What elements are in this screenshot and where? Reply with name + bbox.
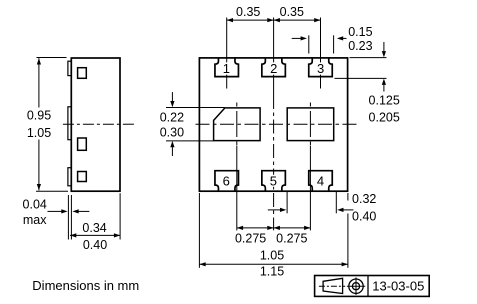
side view lead strip middle bbox=[68, 107, 71, 140]
svg-text:max: max bbox=[23, 213, 47, 227]
dimension 0.95/1.05 line upper segment with up arrow bbox=[38, 58, 40, 107]
package vertical centerline solid upper part bbox=[273, 18, 275, 96]
projection symbol outer circle bbox=[349, 279, 363, 293]
dimension 0.125/0.205 extension line top bbox=[350, 57, 387, 59]
side view terminal square 1 bbox=[78, 68, 87, 79]
left die pad with pin-1 chamfer bbox=[214, 108, 261, 141]
dimension 0.32/0.40 extension line right (pin 4 right edge) bbox=[335, 192, 337, 213]
projection symbol cone (trapezoid) bbox=[323, 278, 343, 293]
dimension 0.95/1.05 extension line top bbox=[37, 57, 67, 59]
svg-text:0.35: 0.35 bbox=[280, 5, 304, 19]
pin number 1 bbox=[222, 62, 232, 74]
bottom view body outline bbox=[199, 58, 347, 191]
dimension 0.22/0.30 extension line top bbox=[166, 107, 225, 109]
pin 6 bbox=[215, 171, 239, 192]
projection symbol crosshair horizontal bbox=[347, 285, 365, 287]
svg-text:0.40: 0.40 bbox=[83, 238, 107, 252]
pin number 2 bbox=[269, 62, 279, 74]
pin 5 bbox=[262, 171, 286, 192]
dimension 0.22/0.30 up arrow bbox=[171, 147, 173, 156]
svg-text:4: 4 bbox=[317, 174, 324, 189]
dimension 0.35 pitch line with arrows bbox=[227, 19, 321, 21]
dimension 0.125/0.205 up arrow bbox=[383, 85, 385, 92]
svg-text:0.275: 0.275 bbox=[235, 231, 266, 245]
dimension 0.04 max extension line (strip edge) bbox=[67, 195, 69, 240]
title block divider bbox=[367, 276, 369, 297]
title block outer box bbox=[315, 276, 430, 297]
svg-text:1.15: 1.15 bbox=[260, 265, 284, 279]
dimension 0.95/1.05 extension line bottom bbox=[36, 190, 68, 192]
dimension 1.05/1.15 extension line right lower bbox=[347, 214, 349, 268]
svg-text:0.95: 0.95 bbox=[27, 108, 51, 122]
dimension 0.95/1.05 line lower segment with down arrow bbox=[38, 140, 40, 191]
projection symbol centerline bbox=[319, 285, 345, 287]
projection symbol crosshair vertical bbox=[355, 278, 357, 296]
pin 1 centerline bbox=[226, 18, 228, 89]
pin number 3 bbox=[316, 62, 326, 74]
dimension 0.125/0.205 extension line bottom bbox=[335, 77, 387, 79]
svg-text:1: 1 bbox=[223, 61, 230, 76]
right pad centerline solid extension bbox=[309, 146, 311, 230]
dimension 0.04 max extension line (body edge) bbox=[70, 195, 72, 240]
svg-text:3: 3 bbox=[317, 61, 324, 76]
svg-text:2: 2 bbox=[270, 61, 277, 76]
dimension 0.15/0.23 right arrow bbox=[343, 37, 347, 39]
dimension 0.15/0.23 extension line right bbox=[333, 35, 335, 53]
svg-text:0.275: 0.275 bbox=[276, 231, 307, 245]
dimension 0.275 line with outward arrows bbox=[237, 227, 311, 229]
dimension 1.05/1.15 line with outward arrows bbox=[199, 263, 348, 265]
pin 1 bbox=[215, 58, 239, 77]
package vertical centerline dash-dot bbox=[273, 95, 275, 230]
dimension 0.34/0.40 extension line right (body right edge) bbox=[119, 193, 121, 239]
projection symbol inner circle bbox=[352, 283, 359, 290]
pin number 6 bbox=[221, 175, 231, 187]
side view lead strip bottom bbox=[68, 168, 71, 186]
svg-text:0.23: 0.23 bbox=[348, 39, 372, 53]
svg-text:0.34: 0.34 bbox=[82, 221, 106, 235]
dimension 0.04 max left-pointing arrow bbox=[79, 210, 90, 212]
dimension 0.32/0.40 extension line left (pin 5 right edge) bbox=[286, 192, 288, 213]
dimension 1.05/1.15 extension line right upper bbox=[347, 193, 349, 201]
dimension 0.22/0.30 extension line bottom bbox=[166, 140, 213, 142]
side view terminal square 2 bbox=[78, 138, 87, 150]
pin 3 bbox=[309, 58, 333, 77]
dimension 0.125/0.205 down arrow bbox=[383, 42, 385, 51]
side view body outline bbox=[71, 58, 120, 191]
svg-text:0.40: 0.40 bbox=[352, 210, 376, 224]
svg-text:6: 6 bbox=[223, 174, 230, 189]
svg-text:1.05: 1.05 bbox=[27, 126, 51, 140]
svg-text:0.30: 0.30 bbox=[160, 125, 184, 139]
svg-text:13-03-05: 13-03-05 bbox=[372, 279, 424, 294]
dimension 0.34/0.40 dimension line with outward arrows bbox=[70, 234, 120, 236]
svg-text:0.22: 0.22 bbox=[160, 110, 184, 124]
svg-text:0.32: 0.32 bbox=[352, 192, 376, 206]
svg-text:0.125: 0.125 bbox=[369, 93, 400, 107]
svg-text:0.04: 0.04 bbox=[23, 198, 47, 212]
right die pad bbox=[287, 108, 334, 141]
svg-text:1.05: 1.05 bbox=[260, 249, 284, 263]
dimension 0.15/0.23 left arrow bbox=[292, 37, 301, 39]
svg-text:0.35: 0.35 bbox=[236, 5, 260, 19]
pin number 4 bbox=[316, 175, 326, 187]
left pad centerline solid extension bbox=[236, 146, 238, 230]
bottom view horizontal centerline bbox=[196, 123, 358, 125]
side view terminal square 3 bbox=[78, 172, 87, 182]
dimension 0.32/0.40 left-pointing arrow bbox=[343, 209, 353, 211]
dimension 0.22/0.30 down arrow bbox=[171, 92, 173, 101]
pin 4 bbox=[309, 171, 333, 192]
svg-text:5: 5 bbox=[270, 174, 277, 189]
dimension 1.05/1.15 extension line left bbox=[198, 193, 200, 268]
svg-text:0.205: 0.205 bbox=[369, 110, 400, 124]
side view horizontal centerline bbox=[63, 123, 134, 125]
left pad centerline dash-dot bbox=[236, 103, 238, 147]
dimension 0.15/0.23 extension line left bbox=[308, 35, 310, 53]
side view lead strip top bbox=[68, 61, 71, 75]
right pad centerline dash-dot bbox=[309, 103, 311, 147]
pin 3 centerline bbox=[320, 18, 322, 89]
dimension 0.04 max right-pointing arrow bbox=[48, 210, 62, 212]
svg-text:Dimensions in mm: Dimensions in mm bbox=[32, 278, 139, 293]
pin number 5 bbox=[268, 175, 278, 187]
pin 2 bbox=[262, 58, 286, 77]
svg-text:0.15: 0.15 bbox=[348, 25, 372, 39]
dimension 0.32/0.40 right-pointing arrow bbox=[268, 209, 281, 211]
